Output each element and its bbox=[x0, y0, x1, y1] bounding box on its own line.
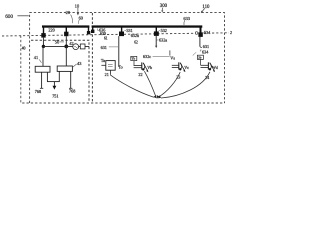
source circle 42 bbox=[73, 44, 79, 50]
svg-text:632a: 632a bbox=[131, 33, 139, 38]
thick supply bus 70 (left segment) bbox=[42, 25, 89, 27]
svg-text:631: 631 bbox=[101, 45, 107, 50]
svg-text:600: 600 bbox=[5, 14, 13, 20]
junction node dot B bbox=[64, 45, 68, 49]
wire W1 bbox=[43, 45, 66, 47]
label 50 with arrow bbox=[55, 39, 64, 44]
transistor Tb bbox=[134, 62, 149, 72]
svg-text:632a: 632a bbox=[159, 38, 167, 43]
outer dashed box 600 bbox=[30, 13, 225, 103]
component box 43a bbox=[80, 44, 85, 49]
label 43 with leader arrow bbox=[73, 61, 82, 67]
transistor Vc bbox=[172, 62, 186, 72]
svg-text:40: 40 bbox=[22, 46, 26, 50]
svg-text:632c: 632c bbox=[143, 54, 151, 59]
svg-text:110: 110 bbox=[202, 5, 210, 10]
wire dot B to regulator 42 bbox=[65, 46, 67, 66]
svg-text:534: 534 bbox=[204, 30, 211, 35]
label 531 bbox=[124, 28, 132, 33]
svg-text:62: 62 bbox=[134, 40, 138, 44]
svg-text:Vb: Vb bbox=[147, 65, 152, 70]
svg-text:61: 61 bbox=[104, 36, 108, 40]
label 532 bbox=[159, 28, 167, 33]
junction node dot A bbox=[42, 45, 45, 48]
svg-text:Ta: Ta bbox=[101, 58, 105, 63]
wire 531 down to cell Ta bbox=[118, 36, 120, 67]
node circle on boundary bbox=[195, 32, 198, 35]
label 300 with arrow bbox=[160, 4, 168, 12]
horizontal dashed boundary line bbox=[2, 33, 229, 36]
label 20 bbox=[66, 10, 73, 23]
sweep arrow from Wd bbox=[161, 72, 210, 98]
svg-text:21: 21 bbox=[105, 72, 109, 77]
inner dashed box 110 left edge bbox=[91, 13, 93, 102]
terminal square 72 bbox=[64, 32, 68, 37]
label 10 with arrow bbox=[75, 3, 80, 15]
terminal square 530a bbox=[91, 30, 94, 33]
svg-text:2b: 2b bbox=[198, 56, 202, 60]
wire from terminal 72 down bbox=[65, 36, 67, 46]
bus end drop 534 bbox=[200, 28, 202, 33]
bus drop 532 bbox=[156, 28, 157, 33]
cell Vs lead bbox=[169, 50, 171, 55]
svg-text:Wd: Wd bbox=[212, 65, 218, 70]
pin 42 outer down bbox=[70, 71, 72, 88]
label 534 bbox=[202, 30, 211, 35]
svg-text:631: 631 bbox=[203, 44, 209, 49]
terminal square 73 bbox=[87, 31, 90, 34]
wire 532 stub with arrow bbox=[155, 36, 157, 46]
label 600 bbox=[5, 14, 29, 20]
bus drop 531 bbox=[121, 28, 122, 33]
label 41 with leader bbox=[34, 55, 42, 63]
svg-text:To: To bbox=[118, 65, 122, 70]
label 631 left with dash bbox=[101, 45, 118, 50]
right bus start drop bbox=[92, 28, 93, 31]
convergence arrowheads bbox=[153, 95, 161, 99]
svg-text:768: 768 bbox=[35, 89, 41, 94]
cell Tb label box bbox=[131, 56, 137, 65]
svg-text:633: 633 bbox=[183, 16, 190, 21]
label 110 with arrow bbox=[201, 5, 210, 13]
svg-text:Vs: Vs bbox=[170, 55, 175, 60]
wire 534 stub bbox=[199, 37, 201, 47]
bus drop wire 1 bbox=[43, 28, 44, 34]
svg-text:2: 2 bbox=[230, 30, 232, 35]
sweep arrow from Tb bbox=[144, 71, 155, 96]
label 634 bbox=[200, 50, 209, 55]
cell Ta box bbox=[106, 61, 115, 71]
inner dashed box 40 (left block) bbox=[31, 40, 89, 102]
svg-text:10: 10 bbox=[75, 3, 80, 8]
svg-text:22: 22 bbox=[138, 72, 142, 77]
svg-text:220: 220 bbox=[48, 28, 54, 33]
regulator block 42 bbox=[57, 66, 72, 71]
label 632a right bbox=[157, 38, 168, 43]
cell Ta bottom pin bbox=[109, 70, 111, 74]
bus end drop 3 bbox=[88, 28, 89, 32]
label 633 with leader bbox=[183, 16, 190, 25]
svg-text:634: 634 bbox=[202, 50, 209, 55]
pin 42 inner down bbox=[58, 71, 60, 81]
label 632c with leader bbox=[143, 54, 170, 59]
svg-text:300: 300 bbox=[160, 4, 168, 9]
terminal square 534 bbox=[198, 32, 202, 37]
regulator block 41 bbox=[35, 66, 50, 72]
svg-text:Tb: Tb bbox=[132, 57, 136, 61]
label 634 top leader bbox=[193, 52, 196, 55]
wire W2 bbox=[66, 45, 89, 47]
svg-text:751: 751 bbox=[52, 93, 58, 98]
bus drop wire 2 bbox=[66, 28, 67, 33]
thick supply bus 530 (right segment) bbox=[92, 25, 203, 27]
svg-text:768: 768 bbox=[69, 88, 75, 93]
wire from terminal 71 down bbox=[42, 38, 44, 47]
sweep arrow from Ta bbox=[110, 75, 154, 97]
cell 2b label box bbox=[197, 55, 203, 65]
terminal square 532 bbox=[154, 31, 159, 36]
transistor Wd bbox=[201, 62, 216, 72]
svg-text:532: 532 bbox=[161, 28, 167, 33]
svg-text:41: 41 bbox=[34, 55, 38, 60]
svg-text:Vc: Vc bbox=[184, 65, 189, 70]
pin 41 inner down bbox=[46, 72, 48, 81]
terminal square 531 bbox=[119, 32, 124, 37]
label 636 bbox=[98, 27, 106, 32]
wire dot A to regulator 41 bbox=[42, 46, 44, 66]
lower section dashed box 40 bbox=[21, 36, 225, 103]
label 60 bbox=[78, 15, 83, 23]
cell Ta gate wire bbox=[101, 64, 105, 66]
center stem with arrowhead bbox=[53, 82, 55, 86]
terminal square 71 bbox=[41, 33, 45, 38]
pin 41 outer down bbox=[41, 72, 43, 88]
joining bar bbox=[47, 81, 60, 83]
sweep arrow from Vc bbox=[159, 72, 180, 97]
